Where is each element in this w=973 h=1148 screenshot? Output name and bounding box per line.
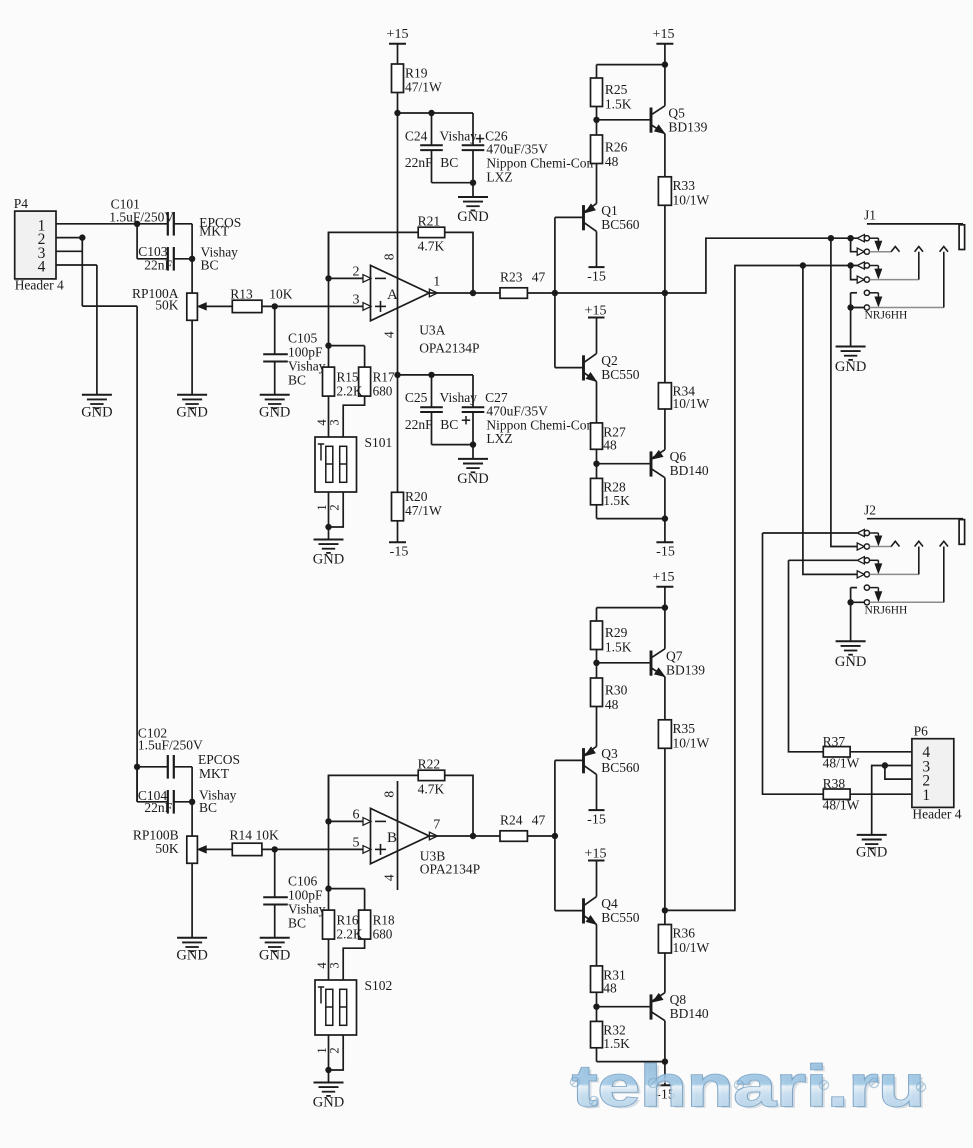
svg-text:4: 4 — [381, 874, 396, 881]
svg-text:P6: P6 — [914, 724, 929, 739]
svg-text:EPCOS: EPCOS — [198, 752, 240, 767]
svg-text:BC: BC — [288, 915, 306, 930]
svg-text:P4: P4 — [14, 196, 29, 211]
svg-text:BD139: BD139 — [668, 119, 707, 134]
svg-text:GND: GND — [313, 552, 344, 568]
svg-text:BD140: BD140 — [670, 463, 709, 478]
svg-text:1.5uF/250V: 1.5uF/250V — [138, 738, 203, 753]
svg-text:48: 48 — [605, 697, 619, 712]
svg-text:C25: C25 — [405, 390, 428, 405]
svg-text:J2: J2 — [864, 502, 876, 517]
svg-text:48/1W: 48/1W — [823, 756, 860, 771]
svg-text:GND: GND — [176, 405, 207, 421]
svg-text:MKT: MKT — [199, 224, 230, 239]
svg-text:BD139: BD139 — [666, 662, 705, 677]
svg-text:S102: S102 — [365, 978, 393, 993]
svg-text:J1: J1 — [864, 208, 876, 223]
svg-text:Nippon Chemi-Con: Nippon Chemi-Con — [486, 156, 593, 171]
svg-text:10/1W: 10/1W — [673, 192, 710, 207]
svg-text:MKT: MKT — [199, 766, 230, 781]
svg-text:Vishay: Vishay — [288, 358, 326, 373]
svg-text:Header 4: Header 4 — [912, 806, 961, 821]
svg-text:50K: 50K — [155, 841, 179, 856]
svg-text:3: 3 — [353, 293, 360, 308]
svg-text:R24: R24 — [500, 813, 523, 828]
svg-text:22nF: 22nF — [144, 257, 172, 272]
svg-text:GND: GND — [81, 405, 112, 421]
svg-text:Q4: Q4 — [601, 896, 618, 911]
svg-text:OPA2134P: OPA2134P — [419, 341, 479, 356]
svg-text:470uF/35V: 470uF/35V — [486, 403, 548, 418]
svg-text:C24: C24 — [405, 128, 428, 143]
svg-text:R22: R22 — [418, 756, 441, 771]
svg-text:GND: GND — [259, 948, 290, 964]
svg-text:C106: C106 — [288, 873, 318, 888]
svg-text:Q2: Q2 — [601, 353, 618, 368]
svg-text:4: 4 — [381, 331, 396, 338]
svg-text:-15: -15 — [390, 545, 409, 560]
svg-text:OPA2134P: OPA2134P — [420, 862, 480, 877]
svg-text:-15: -15 — [656, 545, 675, 560]
svg-text:10K: 10K — [256, 828, 280, 843]
svg-text:4: 4 — [38, 259, 46, 276]
svg-text:C105: C105 — [288, 330, 318, 345]
svg-text:BD140: BD140 — [670, 1006, 709, 1021]
svg-text:Header 4: Header 4 — [15, 278, 64, 293]
svg-text:-15: -15 — [587, 270, 606, 285]
svg-text:48: 48 — [603, 980, 617, 995]
svg-text:6: 6 — [353, 808, 360, 823]
svg-text:NRJ6HH: NRJ6HH — [865, 605, 908, 617]
svg-text:R25: R25 — [605, 82, 628, 97]
svg-text:1.5K: 1.5K — [605, 97, 632, 112]
svg-text:47: 47 — [532, 270, 546, 285]
svg-text:B: B — [387, 830, 397, 846]
svg-text:R15: R15 — [337, 369, 359, 384]
svg-text:1.5K: 1.5K — [603, 1036, 630, 1051]
svg-text:R26: R26 — [605, 139, 628, 154]
svg-text:R19: R19 — [405, 65, 428, 80]
svg-text:22nF: 22nF — [405, 417, 433, 432]
svg-text:+15: +15 — [653, 570, 675, 585]
svg-text:BC560: BC560 — [601, 760, 640, 775]
svg-text:47/1W: 47/1W — [405, 503, 442, 518]
svg-text:48/1W: 48/1W — [823, 798, 860, 813]
svg-text:NRJ6HH: NRJ6HH — [865, 310, 908, 322]
svg-text:2: 2 — [328, 1047, 342, 1053]
svg-text:GND: GND — [259, 405, 290, 421]
svg-text:Q1: Q1 — [601, 203, 618, 218]
svg-text:10/1W: 10/1W — [673, 735, 710, 750]
svg-text:R38: R38 — [823, 776, 846, 791]
svg-text:10K: 10K — [269, 286, 293, 301]
svg-text:22nF: 22nF — [405, 155, 433, 170]
svg-text:R33: R33 — [673, 178, 696, 193]
svg-text:BC: BC — [440, 155, 458, 170]
svg-text:R36: R36 — [673, 926, 696, 941]
svg-text:Q6: Q6 — [670, 449, 687, 464]
svg-text:Q7: Q7 — [666, 648, 683, 663]
svg-text:47: 47 — [532, 813, 546, 828]
svg-text:GND: GND — [176, 948, 207, 964]
svg-text:48: 48 — [605, 154, 619, 169]
svg-text:1: 1 — [922, 787, 930, 804]
svg-text:22nF: 22nF — [144, 800, 172, 815]
svg-text:2.2K: 2.2K — [337, 926, 363, 941]
svg-text:U3A: U3A — [419, 322, 445, 337]
svg-text:7: 7 — [433, 818, 440, 833]
svg-text:BC: BC — [288, 372, 306, 387]
svg-text:3: 3 — [328, 962, 342, 968]
svg-text:2: 2 — [353, 265, 360, 280]
svg-text:8: 8 — [381, 791, 396, 798]
svg-text:R14: R14 — [230, 828, 253, 843]
svg-text:GND: GND — [835, 654, 866, 670]
svg-text:680: 680 — [373, 926, 393, 941]
svg-text:5: 5 — [353, 836, 360, 851]
svg-text:1.5uF/250V: 1.5uF/250V — [109, 209, 174, 224]
svg-text:Q5: Q5 — [668, 105, 685, 120]
svg-text:8: 8 — [381, 253, 396, 260]
svg-text:Q8: Q8 — [670, 992, 687, 1007]
svg-text:R17: R17 — [373, 369, 395, 384]
svg-text:1.5K: 1.5K — [603, 493, 630, 508]
svg-text:3: 3 — [328, 419, 342, 425]
svg-text:2: 2 — [328, 504, 342, 510]
svg-text:BC: BC — [199, 800, 217, 815]
svg-text:470uF/35V: 470uF/35V — [486, 142, 548, 157]
svg-text:1.5K: 1.5K — [605, 640, 632, 655]
svg-text:S101: S101 — [365, 435, 393, 450]
svg-text:R23: R23 — [500, 270, 523, 285]
svg-text:+15: +15 — [585, 303, 607, 318]
svg-text:4.7K: 4.7K — [418, 238, 445, 253]
svg-text:LXZ: LXZ — [486, 431, 512, 446]
svg-text:R16: R16 — [337, 912, 359, 927]
svg-text:GND: GND — [835, 359, 866, 375]
svg-text:+15: +15 — [585, 846, 607, 861]
svg-text:10/1W: 10/1W — [673, 940, 710, 955]
svg-text:R35: R35 — [673, 721, 696, 736]
svg-text:R21: R21 — [418, 213, 441, 228]
svg-text:48: 48 — [603, 437, 617, 452]
svg-text:LXZ: LXZ — [486, 169, 512, 184]
svg-text:GND: GND — [856, 844, 887, 860]
svg-text:GND: GND — [313, 1095, 344, 1111]
svg-text:2.2K: 2.2K — [337, 383, 363, 398]
svg-text:BC550: BC550 — [601, 367, 640, 382]
svg-text:-15: -15 — [587, 813, 606, 828]
svg-text:R20: R20 — [405, 489, 428, 504]
svg-text:R18: R18 — [373, 912, 395, 927]
svg-text:BC: BC — [201, 257, 219, 272]
svg-text:GND: GND — [457, 209, 488, 225]
svg-text:BC550: BC550 — [601, 910, 640, 925]
svg-text:Vishay: Vishay — [440, 128, 478, 143]
svg-text:Vishay: Vishay — [440, 390, 478, 405]
svg-text:1: 1 — [433, 275, 440, 290]
svg-text:680: 680 — [373, 383, 393, 398]
svg-text:BC560: BC560 — [601, 217, 640, 232]
svg-text:50K: 50K — [155, 298, 179, 313]
svg-text:4.7K: 4.7K — [418, 781, 445, 796]
svg-text:100pF: 100pF — [288, 344, 323, 359]
svg-text:A: A — [387, 287, 398, 303]
svg-text:GND: GND — [457, 471, 488, 487]
svg-text:R29: R29 — [605, 625, 628, 640]
svg-text:R37: R37 — [823, 734, 846, 749]
svg-text:R30: R30 — [605, 682, 628, 697]
svg-text:+15: +15 — [387, 27, 409, 42]
svg-text:Vishay: Vishay — [288, 901, 326, 916]
svg-text:Q3: Q3 — [601, 746, 618, 761]
svg-text:+15: +15 — [653, 27, 675, 42]
svg-text:47/1W: 47/1W — [405, 79, 442, 94]
svg-text:BC: BC — [440, 417, 458, 432]
svg-text:Nippon Chemi-Con: Nippon Chemi-Con — [486, 417, 593, 432]
svg-text:R13: R13 — [230, 286, 253, 301]
svg-text:100pF: 100pF — [288, 887, 323, 902]
svg-text:10/1W: 10/1W — [673, 396, 710, 411]
